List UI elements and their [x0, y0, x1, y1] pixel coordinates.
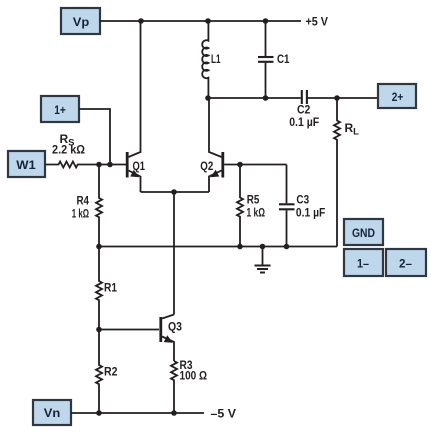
svg-text:Vp: Vp	[73, 15, 90, 29]
ground	[255, 247, 271, 273]
value label RL	[345, 121, 360, 138]
node RL junction	[334, 95, 340, 101]
svg-text:0.1 µF: 0.1 µF	[296, 206, 325, 220]
node ground rail junction gnd stem	[260, 244, 266, 250]
node top rail junction C (C1 top)	[263, 18, 269, 24]
value label R4 1 kOhm	[72, 194, 89, 221]
svg-text:R4: R4	[77, 194, 90, 208]
node ground rail junction R4	[96, 244, 102, 250]
capacitor C2	[302, 90, 378, 104]
value label C1	[277, 52, 290, 66]
node bottom rail junction R2	[96, 410, 102, 416]
reference label Q1	[133, 159, 146, 173]
wire emitter rail	[141, 191, 210, 193]
resistor R2	[96, 330, 102, 414]
net label -5 V	[211, 407, 237, 421]
svg-text:+5 V: +5 V	[306, 15, 329, 29]
net label +5 V	[306, 15, 329, 29]
terminal 1-	[344, 249, 383, 276]
wire emitters to Q3 collector	[173, 192, 175, 315]
value label R1	[104, 281, 117, 295]
resistor R4	[96, 165, 102, 247]
node ground rail junction C3	[284, 244, 290, 250]
terminal 1+	[41, 96, 79, 122]
node base junction 1+	[107, 162, 113, 168]
svg-text:L1: L1	[211, 52, 221, 66]
node bottom rail junction R3	[171, 410, 177, 416]
value label C3 0.1uF	[296, 193, 325, 220]
node base junction R4	[96, 162, 102, 168]
node emitter junction	[171, 189, 177, 195]
capacitor C3	[279, 165, 295, 247]
wire ground rail	[99, 246, 337, 248]
node ground rail junction R5	[237, 244, 243, 250]
reference label Q3	[168, 320, 182, 334]
svg-text:2.2 kΩ: 2.2 kΩ	[52, 143, 85, 157]
value label R5 1 kOhm	[247, 193, 266, 220]
value label R3 100 Ohm	[180, 358, 208, 383]
wire 1+ to base node	[79, 109, 110, 165]
node Q2 base junction	[237, 162, 243, 168]
inductor L1	[202, 21, 208, 98]
node mid rail junction C1 bottom	[263, 95, 269, 101]
value label RS 2.2 kOhm	[52, 132, 85, 157]
svg-text:Vn: Vn	[44, 406, 61, 420]
wire bottom rail -5V	[71, 412, 204, 414]
transistor Q3	[161, 315, 174, 362]
resistor R5	[237, 165, 243, 247]
svg-text:R2: R2	[104, 365, 118, 379]
transistor Q2	[209, 98, 223, 192]
terminal 2-	[386, 249, 426, 276]
svg-text:100 Ω: 100 Ω	[180, 369, 208, 383]
wire Q2 base to R5/C3	[224, 164, 286, 166]
svg-text:R1: R1	[104, 281, 117, 295]
svg-text:2+: 2+	[392, 90, 404, 104]
svg-text:0.1 µF: 0.1 µF	[289, 115, 319, 129]
svg-text:C1: C1	[277, 52, 290, 66]
wire Q3 base	[99, 329, 159, 331]
resistor RL	[334, 98, 340, 247]
terminal W1	[8, 151, 45, 177]
node top rail junction A (Q1 collector)	[138, 18, 144, 24]
svg-text:1 kΩ: 1 kΩ	[247, 206, 266, 220]
value label L1	[211, 52, 221, 66]
transistor Q1	[127, 21, 140, 192]
terminal Vp	[61, 8, 100, 34]
svg-text:Q2: Q2	[200, 159, 213, 173]
terminal Vn	[33, 400, 71, 425]
svg-text:1 kΩ: 1 kΩ	[72, 207, 89, 221]
wire top rail +5V	[100, 20, 301, 22]
svg-text:2–: 2–	[399, 257, 412, 271]
svg-text:R5: R5	[247, 193, 260, 207]
capacitor C1	[258, 21, 274, 98]
wire mid rail (tank output)	[208, 97, 301, 99]
svg-text:GND: GND	[352, 226, 375, 240]
reference label Q2	[200, 159, 213, 173]
terminal GND	[344, 219, 383, 245]
svg-text:C3: C3	[296, 193, 309, 207]
value label R2	[104, 365, 118, 379]
node R1/R2/Q3 base junction	[96, 327, 102, 333]
node top rail junction B (L1 top)	[205, 18, 211, 24]
resistor RS	[45, 162, 127, 168]
resistor R1	[96, 247, 102, 330]
svg-text:Q3: Q3	[168, 320, 182, 334]
svg-text:1+: 1+	[54, 103, 66, 117]
terminal 2+	[378, 84, 416, 108]
svg-text:Q1: Q1	[133, 159, 146, 173]
svg-text:1–: 1–	[357, 257, 369, 271]
resistor R3	[171, 361, 177, 413]
node mid rail junction L1/Q2	[205, 95, 211, 101]
value label C2 0.1uF	[289, 103, 319, 130]
svg-text:W1: W1	[16, 158, 36, 172]
svg-text:–5 V: –5 V	[211, 407, 237, 421]
